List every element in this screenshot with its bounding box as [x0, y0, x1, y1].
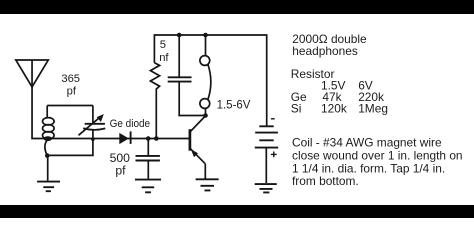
svg-text:Ge diode: Ge diode	[110, 118, 151, 130]
svg-text:pf: pf	[67, 86, 77, 98]
svg-text:close wound over 1 in. length: close wound over 1 in. length on	[292, 148, 463, 162]
svg-text:120k: 120k	[321, 101, 347, 115]
svg-text:Si: Si	[291, 101, 302, 115]
svg-text:pf: pf	[115, 163, 126, 177]
svg-text:from bottom.: from bottom.	[292, 174, 359, 188]
svg-text:nf: nf	[159, 52, 169, 64]
svg-text:1Meg: 1Meg	[358, 101, 388, 115]
svg-text:headphones: headphones	[292, 44, 358, 58]
svg-text:Coil - #34 AWG magnet wire: Coil - #34 AWG magnet wire	[292, 136, 442, 150]
svg-text:5: 5	[160, 39, 166, 51]
svg-text:365: 365	[61, 73, 80, 85]
svg-text:1.5-6V: 1.5-6V	[217, 100, 251, 112]
